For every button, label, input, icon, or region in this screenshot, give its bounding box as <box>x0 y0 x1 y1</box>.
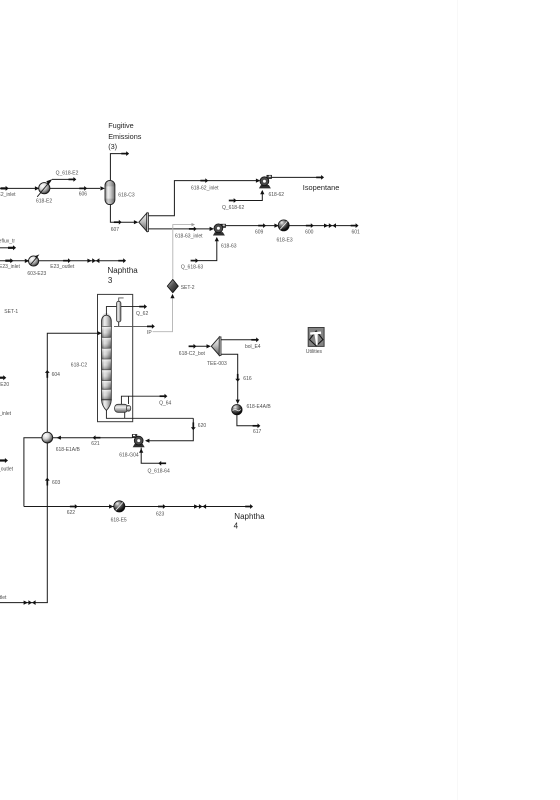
stream arrow reflux stub <box>0 245 16 250</box>
arrowhead into 618-E2 <box>35 186 39 190</box>
heat exchanger 618-E2 <box>37 179 52 197</box>
svg-text:Fugitive: Fugitive <box>108 121 134 130</box>
svg-text:4: 4 <box>234 522 239 531</box>
label E23_outlet <box>50 264 75 270</box>
label 617 <box>253 429 262 435</box>
svg-text:Q_618-62: Q_618-62 <box>222 205 244 211</box>
stream arrow Naphtha 3 <box>118 258 126 263</box>
stream arrow 600 <box>306 223 314 228</box>
label reflux_tr <box>0 239 15 245</box>
arrowhead into E1A/B right <box>57 436 61 440</box>
wire fugitive emissions from column top <box>110 154 121 180</box>
label _outlet <box>0 466 14 472</box>
wire 606 from 618-E2 to column 618-C3 <box>50 187 100 189</box>
condenser vessel <box>117 301 121 322</box>
arrowhead into 603-E23 <box>25 259 29 263</box>
label Q_618-E2 <box>56 170 79 176</box>
pump 618-63 <box>213 224 226 236</box>
pump 618-G04 <box>132 435 144 448</box>
stream arrow 616 <box>235 374 240 382</box>
svg-text:618-62_inlet: 618-62_inlet <box>191 185 219 191</box>
stream arrow 607 <box>114 220 122 225</box>
stream arrow 609 <box>258 223 266 228</box>
svg-text:618-G04: 618-G04 <box>119 452 139 458</box>
tee splitter (unnamed) <box>139 213 149 232</box>
svg-text:618-63: 618-63 <box>221 244 237 250</box>
tee TEE-003 <box>211 337 221 356</box>
svg-text:TEE-003: TEE-003 <box>207 361 227 367</box>
svg-text:Emissions: Emissions <box>108 132 142 141</box>
label 601 <box>352 230 361 236</box>
label 618-E4A/B <box>247 404 272 410</box>
label outlet <box>0 595 7 601</box>
svg-text:616: 616 <box>243 376 252 382</box>
stream arrow fugitive emissions <box>121 151 129 156</box>
stream arrow 618-63_inlet <box>189 227 197 232</box>
valve on bottom outlet line <box>24 600 36 605</box>
svg-text:E23_inlet: E23_inlet <box>0 264 20 270</box>
label 618-G04 <box>119 452 139 458</box>
wire 617 from E4A/B bottom <box>237 415 260 428</box>
label Fugitive Emissions (3) <box>108 121 142 151</box>
label Isopentane <box>303 183 340 192</box>
label bol_E4 <box>245 344 261 350</box>
energy stream Q_618-64 <box>139 448 166 466</box>
svg-text:l_inlet: l_inlet <box>0 411 12 417</box>
svg-text:603: 603 <box>52 480 61 486</box>
svg-text:618-E5: 618-E5 <box>111 518 127 524</box>
svg-text:623: 623 <box>156 512 165 518</box>
svg-text:601: 601 <box>352 230 361 236</box>
label Q_618-64 <box>148 468 170 474</box>
heat exchanger 618-E1A/B <box>42 432 53 443</box>
label 618-C2 <box>71 362 88 368</box>
svg-text:617: 617 <box>253 429 262 435</box>
stream arrow E23_outlet <box>63 258 71 263</box>
label 618-62_inlet <box>191 185 219 191</box>
label Naphtha 3 <box>108 266 139 285</box>
SET-2 diamond <box>167 279 178 292</box>
svg-text:reflux_tr: reflux_tr <box>0 239 15 245</box>
svg-text:604: 604 <box>52 372 61 378</box>
label E20 <box>0 382 9 388</box>
svg-text:Q_64: Q_64 <box>159 400 171 406</box>
stream arrow E20 stub <box>0 375 6 380</box>
label 603-E23 <box>27 271 46 277</box>
svg-text:Q_618-64: Q_618-64 <box>148 468 170 474</box>
page boundary line (very faint) <box>457 0 459 800</box>
svg-text:utlet: utlet <box>0 595 7 601</box>
label 618-E5 <box>111 518 127 524</box>
stream arrow E23_inlet <box>5 258 13 263</box>
svg-text:609: 609 <box>255 230 264 236</box>
cooler 618-E5 <box>114 501 125 512</box>
cooler 603-E23 <box>28 254 39 266</box>
svg-text:621: 621 <box>91 441 100 447</box>
svg-text:618-E4A/B: 618-E4A/B <box>247 404 272 410</box>
label Naphtha 4 <box>234 512 265 531</box>
wire 616 from TEE-003 bottom to 618-E4A/B <box>221 354 238 400</box>
arrowhead into pump 618-G04 <box>145 439 149 443</box>
energy stream Q_618-62 <box>229 190 265 203</box>
label Q_618-63 <box>181 265 203 271</box>
label 623 <box>156 512 165 518</box>
label 607 <box>111 227 120 233</box>
wire 618-62_inlet from tee to pump 618-62 <box>149 181 257 216</box>
svg-text:606: 606 <box>79 192 88 198</box>
wire 607 from column bottom to tee <box>110 205 135 222</box>
svg-text:E23_outlet: E23_outlet <box>50 264 75 270</box>
stream arrow 622 <box>70 504 78 509</box>
svg-text:Naphtha: Naphtha <box>234 512 265 521</box>
svg-text:Q_618-E2: Q_618-E2 <box>56 170 79 176</box>
label Q_618-62 <box>222 205 244 211</box>
svg-text:IP: IP <box>147 330 152 336</box>
SET-2 grey connector to IP <box>153 294 175 332</box>
arrowhead into pump 618-62 <box>256 179 260 183</box>
label 618-E3 <box>277 238 293 244</box>
svg-text:Q_62: Q_62 <box>136 311 148 317</box>
energy stream Q_618-E2 <box>52 177 76 182</box>
label 616 <box>243 376 252 382</box>
pump 618-62 <box>259 175 272 188</box>
energy stream Q_64 from reboiler <box>121 394 167 404</box>
svg-text:620: 620 <box>198 423 207 429</box>
energy stream Q_618-63 <box>191 237 219 263</box>
label 622 <box>67 510 76 516</box>
svg-text:E20: E20 <box>0 382 9 388</box>
stream bol_E4 from TEE-003 top <box>221 337 259 342</box>
label IP <box>147 330 152 336</box>
arrowhead into 618-E4A/B <box>236 400 240 404</box>
wire IP stream <box>114 324 155 329</box>
svg-text:622: 622 <box>67 510 76 516</box>
svg-text:Naphtha: Naphtha <box>108 266 139 275</box>
label _inlet <box>0 411 12 417</box>
label 618-C2_bot <box>179 351 206 357</box>
wire E23 row <box>0 260 120 262</box>
label 618-C3 <box>118 193 135 199</box>
energy stream Q_62 from condenser <box>121 304 147 309</box>
arrowhead feed into column <box>97 331 101 335</box>
valve on E23 outlet <box>87 258 99 263</box>
label 606 <box>79 192 88 198</box>
label 621 <box>91 441 100 447</box>
stream arrow 618-62_inlet <box>200 178 208 183</box>
wire E2_inlet line into 618-E2 <box>0 187 39 189</box>
svg-text:(3): (3) <box>108 142 117 151</box>
wire 609/600/601 row <box>226 225 352 227</box>
label 618-63 <box>221 244 237 250</box>
label TEE-003 <box>207 361 227 367</box>
svg-text:3: 3 <box>108 276 113 285</box>
stream arrow _outlet stub <box>0 458 8 463</box>
arrowhead into pump 618-63 <box>210 227 214 231</box>
distillation column 618-C2 tower <box>102 313 112 410</box>
stream arrow 603 <box>45 478 50 486</box>
cooler 618-E4A/B <box>232 405 242 415</box>
label SET-1 <box>4 309 18 315</box>
wire feed 604 corner into column <box>47 333 98 432</box>
wire condenser bottom to IP line <box>118 322 120 327</box>
svg-text:618-C2_bot: 618-C2_bot <box>179 351 206 357</box>
column vessel 618-C3 <box>105 180 115 204</box>
valve on 623 <box>194 504 206 509</box>
wire 618-63_inlet from tee to pump 618-63 <box>149 228 211 230</box>
stream arrow 601 <box>351 223 359 228</box>
label E23_inlet <box>0 264 20 270</box>
label 600 <box>305 230 314 236</box>
cooler 618-E3 <box>278 220 289 231</box>
svg-text:618-E1A/B: 618-E1A/B <box>56 447 81 453</box>
label SET-2 <box>181 285 195 291</box>
label 604 <box>52 372 61 378</box>
label 618-E2 <box>36 199 52 205</box>
label E2_inlet <box>0 192 16 198</box>
valve on 600/601 <box>324 223 336 228</box>
svg-text:618-C2: 618-C2 <box>71 362 88 368</box>
label 618-62 <box>269 192 285 198</box>
arrowhead into 618-E5 <box>109 504 113 508</box>
stream arrow Naphtha 4 <box>245 504 253 509</box>
stream arrow 606 <box>79 186 87 191</box>
svg-text:bol_E4: bol_E4 <box>245 344 261 350</box>
wire condenser top vent stub <box>119 298 124 301</box>
wire 621 from pump 618-G04 to E1A/B <box>53 437 132 439</box>
wire bottom outlet line <box>0 602 48 604</box>
svg-text:SET-2: SET-2 <box>181 285 195 291</box>
stream arrow 621 <box>93 435 101 440</box>
svg-text:607: 607 <box>111 227 120 233</box>
svg-text:SET-1: SET-1 <box>4 309 18 315</box>
stream arrow 620 <box>191 422 196 430</box>
wire Isopentane outlet <box>272 176 318 178</box>
utilities icon <box>308 328 324 347</box>
SET-2 grey connector to 618-63_inlet <box>173 223 195 279</box>
reboiler vessel <box>115 404 131 412</box>
svg-text:618-C3: 618-C3 <box>118 193 135 199</box>
svg-text:603-E23: 603-E23 <box>27 271 46 277</box>
wire recycle loop left of E1A/B down to 622 row <box>24 438 42 507</box>
stream arrow Isopentane <box>316 175 324 180</box>
svg-text:618-E3: 618-E3 <box>277 238 293 244</box>
wire column bottom to reboiler and out <box>106 410 193 418</box>
arrowhead into tee <box>134 220 138 224</box>
label 618-63_inlet <box>175 233 203 239</box>
wire 620 from box to pump 618-G04 <box>149 418 194 440</box>
label Utilities <box>306 349 323 355</box>
arrowhead into 618-E3 <box>274 224 278 228</box>
svg-text:618-63_inlet: 618-63_inlet <box>175 233 203 239</box>
wire 622 row to Naphtha 4 <box>24 506 247 508</box>
subflowsheet box 618-C2 <box>98 294 133 421</box>
svg-text:Q_618-63: Q_618-63 <box>181 265 203 271</box>
wire column top to condenser <box>106 307 116 316</box>
stream arrow E2_inlet <box>1 186 9 191</box>
label 609 <box>255 230 264 236</box>
label 620 <box>198 423 207 429</box>
svg-text:Utilities: Utilities <box>306 349 323 355</box>
stream 618-C2_bot into TEE-003 <box>189 344 211 349</box>
label Q_64 <box>159 400 171 406</box>
svg-text:618-62: 618-62 <box>269 192 285 198</box>
wire 603 below E1A/B <box>46 443 48 602</box>
svg-text:618-E2: 618-E2 <box>36 199 52 205</box>
stream arrow 604 <box>45 370 50 378</box>
stream arrow 623 <box>158 504 166 509</box>
label 603 <box>52 480 61 486</box>
arrowhead 606 into column <box>100 186 104 190</box>
svg-text:E2_inlet: E2_inlet <box>0 192 16 198</box>
svg-text:600: 600 <box>305 230 314 236</box>
label 618-E1A/B <box>56 447 81 453</box>
label Q_62 <box>136 311 148 317</box>
svg-text:_outlet: _outlet <box>0 466 14 472</box>
svg-text:Isopentane: Isopentane <box>303 183 340 192</box>
